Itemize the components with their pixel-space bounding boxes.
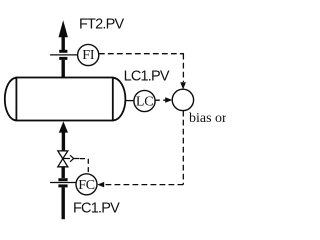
svg-text:FC1.PV: FC1.PV — [73, 201, 120, 217]
instrument LC circle — [134, 90, 155, 111]
svg-text:bias or: bias or — [189, 111, 226, 126]
arrowhead into FC right — [97, 182, 104, 188]
chevron arrow on valve signal — [70, 155, 74, 162]
impulse line to FI — [50, 54, 78, 56]
svg-text:LC1.PV: LC1.PV — [124, 69, 170, 85]
pipe below orifice to vessel — [62, 60, 65, 78]
valve stem signal line — [64, 158, 71, 160]
signal wire FI to bias (dashed) — [99, 53, 184, 55]
instrument FI circle — [78, 44, 99, 65]
bias summer circle — [172, 89, 193, 110]
svg-text:LC: LC — [136, 95, 154, 110]
orifice flange top (FC1) — [58, 178, 67, 181]
vessel V1 left head — [5, 78, 17, 121]
instrument FC circle — [76, 174, 97, 195]
orifice flange bottom (FT2) — [59, 57, 67, 60]
orifice flange bottom (FC1) — [58, 184, 67, 187]
svg-text:FT2.PV: FT2.PV — [79, 17, 124, 33]
wire corner down to bias — [182, 54, 184, 82]
signal wire LC to bias (dashed) — [155, 99, 166, 101]
svg-text:FI: FI — [82, 48, 95, 63]
vessel V1 body — [16, 78, 112, 121]
signal wire bias down (dashed) — [182, 111, 184, 185]
tap line vessel to LC — [125, 100, 134, 102]
control valve body — [58, 151, 68, 159]
pipe below orifice (thick) — [62, 187, 65, 219]
top outlet pipe (thick) — [62, 33, 65, 50]
pipe valve to orifice (thick) — [62, 167, 65, 178]
feed arrow up into vessel — [59, 121, 68, 132]
signal wire to FC (dashed) — [104, 184, 183, 186]
feed pipe above valve (thick) — [62, 129, 65, 151]
impulse line to FC — [50, 182, 76, 184]
orifice flange top (FT2) — [59, 50, 67, 53]
arrowhead into bias left — [165, 97, 172, 103]
arrowhead into bias top — [180, 82, 186, 89]
top outlet arrow up — [59, 20, 68, 37]
vessel V1 right head — [113, 78, 126, 121]
dashed wire valve to FC — [80, 159, 88, 174]
svg-text:FC: FC — [78, 178, 95, 193]
